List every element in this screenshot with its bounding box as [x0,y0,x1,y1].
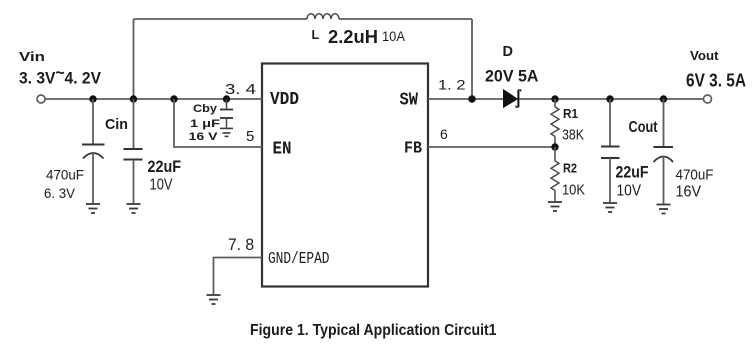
ground GND/EPAD [207,295,221,304]
capacitor Cin 470uF [82,99,105,203]
wire diode to Vout [520,98,704,100]
junction dot EN branch node [170,95,177,102]
svg-text:5: 5 [246,128,254,145]
junction dot Cby node [223,95,230,102]
svg-text:6: 6 [440,126,448,142]
svg-text:470uF: 470uF [46,167,84,183]
svg-text:7. 8: 7. 8 [228,235,254,254]
svg-text:10V: 10V [617,183,642,200]
svg-text:Cby: Cby [193,103,218,115]
inductor L1 [307,14,339,19]
svg-text:6V 3. 5A: 6V 3. 5A [686,71,746,91]
svg-text:2.2uH: 2.2uH [328,27,378,47]
svg-text:22uF: 22uF [148,157,182,176]
wire riser down to SW node [471,19,473,99]
svg-text:10K: 10K [562,181,585,198]
capacitor Cby 1uF [220,99,233,128]
svg-text:FB: FB [404,140,422,159]
svg-text:GND/EPAD: GND/EPAD [268,249,330,268]
svg-text:22uF: 22uF [616,163,649,182]
svg-text:D: D [503,44,513,60]
svg-text:3. 4: 3. 4 [225,81,256,98]
junction dot SW node [468,95,475,102]
ground R2 [548,202,562,211]
svg-text:16 V: 16 V [189,131,219,143]
svg-text:Vin: Vin [19,49,45,64]
svg-text:16V: 16V [676,184,702,201]
junction dot R1 node [551,95,558,102]
svg-text:Vout: Vout [690,49,719,63]
svg-text:470uF: 470uF [676,167,714,184]
capacitor Cout 22uF [601,99,620,202]
svg-text:20V 5A: 20V 5A [485,67,539,86]
wire top rail left [134,18,308,20]
resistor R1 38K [551,99,559,147]
capacitor C2 22uF [124,99,143,203]
resistor R2 10K [551,147,559,201]
wire SW to node [428,98,504,100]
wire EN branch [174,99,262,147]
IC U1 body [262,64,428,287]
terminal Vin [37,95,45,103]
svg-text:38K: 38K [562,127,584,144]
junction dot C4 node [660,95,667,102]
svg-text:VDD: VDD [270,90,299,110]
svg-text:SW: SW [400,91,419,111]
svg-text:L: L [312,28,320,42]
terminal Vout [704,95,712,103]
junction dot FB node [551,143,558,150]
svg-text:10V: 10V [150,177,173,194]
wire top rail right [339,18,472,20]
svg-text:EN: EN [273,140,292,160]
svg-text:10A: 10A [382,29,405,44]
ground C4 [657,205,671,214]
svg-text:R2: R2 [563,162,577,176]
svg-text:3. 3V~4. 2V: 3. 3V~4. 2V [19,63,102,88]
ground Cout [603,203,617,212]
junction dot Cout node [606,95,613,102]
svg-text:1 μF: 1 μF [190,118,220,130]
ground Cin [86,204,100,213]
svg-text:Cin: Cin [105,116,128,133]
capacitor C4 470uF [654,99,674,204]
svg-text:6. 3V: 6. 3V [44,185,76,201]
svg-text:R1: R1 [563,107,578,121]
wire FB [428,146,555,148]
wire input rail Vin to VDD [46,98,263,100]
wire riser to inductor rail [133,19,135,99]
junction dot Cin node [89,95,96,102]
ground Cby [220,128,233,136]
svg-text:1. 2: 1. 2 [438,77,466,93]
wire GND/EPAD to ground [214,258,263,295]
svg-text:Figure 1. Typical Application: Figure 1. Typical Application Circuit1 [250,322,497,339]
ground C2 [127,204,141,213]
diode D schottky [504,90,521,107]
junction dot inductor node [130,95,137,102]
svg-text:Cout: Cout [629,119,659,136]
